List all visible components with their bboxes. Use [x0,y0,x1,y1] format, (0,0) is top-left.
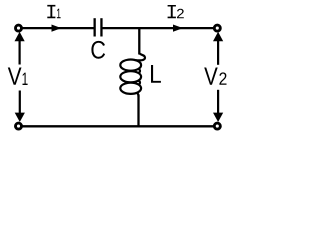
voltage label V2 [204,68,218,85]
voltage label V1 [8,68,22,85]
wire shunt bottom [137,95,139,128]
capacitor label C [91,41,105,59]
voltage arrow V1 upper [15,32,25,65]
current label I2 [168,5,176,18]
voltage arrow V2 upper [213,32,223,65]
wire top-right segment [102,27,213,29]
current arrow I1 [52,25,62,32]
current label I1 [47,5,55,18]
terminal top-left [16,25,22,31]
terminal bottom-right [214,123,220,129]
terminal top-right [214,25,220,31]
inductor label L [151,65,161,83]
wire top-left segment [22,27,94,29]
voltage arrow V2 lower [213,90,223,122]
wire shunt top [138,27,140,55]
terminal bottom-left [16,123,22,129]
voltage arrow V1 lower [15,91,25,123]
current arrow I2 [173,25,183,32]
inductor L coil [120,53,145,96]
capacitor C plates [95,18,102,36]
wire bottom [22,125,213,127]
